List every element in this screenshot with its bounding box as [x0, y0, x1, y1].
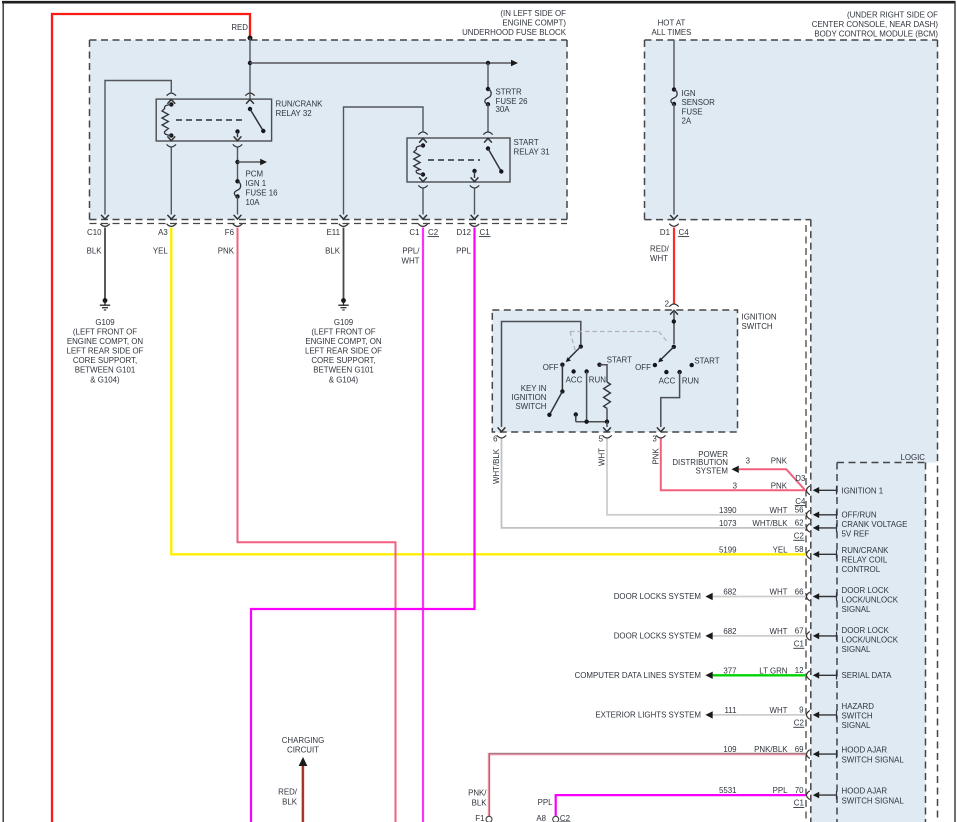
svg-text:SWITCH SIGNAL: SWITCH SIGNAL — [842, 796, 905, 805]
key-in switch arm (open) — [550, 391, 563, 414]
svg-text:PNK/BLK: PNK/BLK — [754, 745, 788, 754]
right switch RUN wire to pin 3 — [661, 372, 680, 427]
svg-text:67: 67 — [795, 627, 804, 636]
svg-text:IGNITION 1: IGNITION 1 — [842, 486, 884, 495]
svg-text:DOOR LOCK: DOOR LOCK — [842, 586, 890, 595]
connector A8/C2 terminal — [553, 816, 559, 822]
svg-text:KEY IN: KEY IN — [521, 384, 547, 393]
ignition switch exit pin 5 — [603, 427, 611, 431]
relay 31 common pin crossing — [484, 138, 492, 142]
svg-text:WHT: WHT — [402, 256, 420, 265]
svg-text:IGN 1: IGN 1 — [246, 179, 267, 188]
ground G109 symbol at x=105.0 — [103, 298, 108, 303]
svg-text:ENGINE COMPT, ON: ENGINE COMPT, ON — [67, 337, 144, 346]
svg-text:SWITCH SIGNAL: SWITCH SIGNAL — [842, 755, 905, 764]
svg-text:F6: F6 — [225, 228, 235, 237]
svg-text:SIGNAL: SIGNAL — [842, 605, 872, 614]
svg-text:PPL: PPL — [456, 247, 472, 256]
svg-text:5531: 5531 — [719, 786, 737, 795]
svg-text:CORE SUPPORT,: CORE SUPPORT, — [311, 356, 375, 365]
BCM pin 56 — [807, 510, 810, 519]
svg-text:A3: A3 — [158, 228, 168, 237]
wire RED/BLK off-page to charging circuit — [302, 766, 304, 822]
relay 32 output contact — [235, 129, 239, 133]
body control module (BCM) dashed box — [645, 40, 938, 220]
svg-text:F1: F1 — [475, 814, 484, 822]
wire hot-at-all-times into BCM — [673, 40, 675, 90]
svg-text:CONTROL: CONTROL — [842, 565, 881, 574]
resistor in ignition switch — [604, 382, 611, 408]
svg-text:2: 2 — [665, 299, 669, 308]
wire relay31 coil top to E11 drop — [344, 107, 424, 215]
right switch RUN contact — [677, 370, 681, 374]
right switch pivot — [672, 345, 676, 349]
wire relay31 output to D12 — [474, 189, 476, 215]
svg-text:70: 70 — [795, 786, 804, 795]
left switch arm (points at OFF) — [567, 347, 581, 361]
svg-text:C1: C1 — [480, 228, 490, 237]
relay 32 coil top pin crossing — [167, 100, 175, 104]
wire LT GRN 377 serial data (pin 12) — [713, 674, 807, 676]
wire YEL 5199 from A3 to BCM pin 58 — [171, 228, 806, 555]
svg-text:C4: C4 — [679, 228, 690, 237]
svg-text:9: 9 — [799, 706, 804, 715]
svg-text:ENGINE COMPT, ON: ENGINE COMPT, ON — [305, 337, 382, 346]
fuse block exit A3 — [167, 215, 175, 219]
wire WHT 682 to door locks (pin 66) — [713, 596, 807, 598]
svg-text:G109: G109 — [334, 318, 354, 327]
svg-text:CIRCUIT: CIRCUIT — [287, 746, 319, 755]
svg-text:G109: G109 — [95, 318, 115, 327]
wire WHT pin5 to BCM pin 56 — [607, 439, 806, 515]
right switch ACC contact — [664, 370, 668, 374]
svg-text:SENSOR: SENSOR — [682, 98, 716, 107]
svg-text:3: 3 — [733, 482, 738, 491]
svg-text:56: 56 — [795, 506, 804, 515]
PCM feed branch arrow — [238, 161, 261, 163]
key-in switch pivot wire — [561, 365, 563, 392]
svg-text:IGN: IGN — [682, 89, 696, 98]
relay 31 output pin crossing — [471, 177, 479, 181]
fuse block exit C10 — [101, 215, 109, 219]
svg-text:30A: 30A — [496, 105, 511, 114]
BCM exit D1/C4 crossing — [670, 215, 678, 219]
svg-text:CRANK VOLTAGE: CRANK VOLTAGE — [842, 520, 908, 529]
svg-text:BODY CONTROL MODULE (BCM): BODY CONTROL MODULE (BCM) — [814, 30, 938, 39]
ignition switch dashed box — [492, 310, 737, 432]
svg-text:10A: 10A — [246, 198, 261, 207]
svg-text:SWITCH: SWITCH — [742, 322, 773, 331]
svg-text:C2: C2 — [794, 719, 804, 728]
svg-text:3: 3 — [746, 456, 751, 465]
svg-text:CENTER CONSOLE, NEAR DASH): CENTER CONSOLE, NEAR DASH) — [812, 20, 939, 29]
wire resistor bottom — [606, 408, 608, 421]
wire PNK branch to power distribution — [739, 469, 805, 489]
svg-text:PNK: PNK — [771, 482, 788, 491]
svg-text:PPL: PPL — [773, 786, 789, 795]
wire PCM fuse to F6 — [237, 197, 239, 215]
svg-text:C1: C1 — [409, 228, 419, 237]
fuse block exit D12/C1 — [471, 215, 479, 219]
wire PPL/WHT from C1C2 off-page — [422, 228, 424, 822]
svg-text:62: 62 — [795, 519, 804, 528]
svg-text:LEFT REAR SIDE OF: LEFT REAR SIDE OF — [305, 347, 382, 356]
svg-text:PNK: PNK — [652, 448, 661, 465]
svg-text:CORE SUPPORT,: CORE SUPPORT, — [73, 356, 137, 365]
junction dot above STRTR fuse — [486, 61, 490, 65]
wire WHT 111 exterior lights (pin 9) — [713, 714, 807, 716]
svg-text:D12: D12 — [457, 228, 471, 237]
wire PNK from F6 down and off-page — [238, 228, 396, 822]
svg-text:SWITCH: SWITCH — [515, 402, 546, 411]
svg-text:RELAY 31: RELAY 31 — [514, 148, 550, 157]
svg-text:WHT: WHT — [770, 627, 788, 636]
svg-text:5: 5 — [599, 434, 604, 443]
svg-text:ACC: ACC — [659, 376, 676, 385]
connector F1 terminal — [486, 816, 492, 822]
svg-text:E11: E11 — [327, 228, 340, 237]
svg-text:OFF: OFF — [543, 363, 559, 372]
svg-text:IGNITION: IGNITION — [742, 312, 777, 321]
svg-text:12: 12 — [795, 666, 804, 675]
right switch OFF contact — [653, 363, 657, 367]
svg-text:1390: 1390 — [719, 506, 737, 515]
svg-text:5V REF: 5V REF — [842, 529, 870, 538]
svg-text:CHARGING: CHARGING — [282, 736, 325, 745]
svg-text:COMPUTER DATA LINES SYSTEM: COMPUTER DATA LINES SYSTEM — [575, 671, 701, 680]
svg-text:D1: D1 — [660, 228, 670, 237]
svg-text:D3: D3 — [795, 474, 806, 483]
svg-text:C10: C10 — [87, 228, 102, 237]
BCM pin 9 — [807, 711, 810, 720]
svg-text:PPL/: PPL/ — [402, 247, 420, 256]
svg-text:682: 682 — [723, 627, 736, 636]
left switch START wire to resistor — [600, 365, 608, 382]
ignition switch exit pin 6 — [498, 427, 506, 431]
wire pin2 into right switch — [673, 310, 675, 344]
fuse IGN SENSOR FUSE 2A — [672, 87, 676, 91]
svg-text:C2: C2 — [794, 532, 804, 541]
left switch ACC contact — [571, 369, 575, 373]
ignition switch pin 2 entry — [669, 304, 678, 307]
svg-text:WHT: WHT — [650, 254, 668, 263]
svg-text:RED/: RED/ — [278, 788, 298, 797]
svg-text:PPL: PPL — [538, 798, 554, 807]
relay 32 switch pivot and arm — [248, 107, 252, 111]
svg-text:UNDERHOOD FUSE BLOCK: UNDERHOOD FUSE BLOCK — [462, 28, 567, 37]
BCM pin 70 — [807, 791, 810, 800]
BCM pin 66 — [807, 592, 810, 601]
wire BLK to ground at x=105.0 — [104, 228, 106, 300]
svg-text:& G104): & G104) — [329, 375, 359, 384]
svg-text:YEL: YEL — [773, 545, 789, 554]
ignition switch exit pin 3 — [657, 427, 665, 431]
svg-text:RUN: RUN — [589, 376, 606, 385]
junction dot PCM feed — [235, 160, 239, 164]
wire relay31 coil bottom to C1C2 — [422, 189, 424, 215]
svg-text:5199: 5199 — [719, 545, 737, 554]
svg-text:PCM: PCM — [246, 169, 264, 178]
svg-text:RED/: RED/ — [650, 244, 670, 253]
right switch arm (points at OFF) — [660, 347, 674, 361]
left switch START contact — [597, 363, 601, 367]
relay 31 coil — [421, 143, 425, 147]
svg-text:(LEFT FRONT OF: (LEFT FRONT OF — [73, 327, 137, 336]
wire relay32 coil top to C10 drop — [105, 81, 171, 215]
left switch pivot — [579, 344, 583, 348]
svg-text:BETWEEN G101: BETWEEN G101 — [75, 366, 136, 375]
svg-text:6: 6 — [493, 434, 498, 443]
svg-text:58: 58 — [795, 545, 804, 554]
svg-text:HAZARD: HAZARD — [842, 702, 875, 711]
relay 31 output contact — [472, 169, 476, 173]
svg-text:EXTERIOR LIGHTS SYSTEM: EXTERIOR LIGHTS SYSTEM — [595, 711, 701, 720]
junction dot at fuse block entry — [248, 36, 253, 41]
svg-text:RELAY COIL: RELAY COIL — [842, 555, 888, 564]
charging circuit continuation arrow — [299, 757, 308, 766]
svg-text:LOCK/UNLOCK: LOCK/UNLOCK — [842, 596, 899, 605]
svg-text:RED: RED — [231, 23, 248, 32]
BCM pin 62 — [807, 524, 810, 533]
svg-text:111: 111 — [725, 706, 737, 715]
wire WHT 682 to door locks (pin 67) — [713, 635, 807, 637]
svg-text:C1: C1 — [794, 799, 804, 808]
relay 31 coil top pin crossing — [419, 138, 427, 142]
wire PPL 5531 to A8 connector — [556, 795, 806, 816]
wire relay32 coil bottom to A3 — [170, 148, 172, 215]
svg-text:BLK: BLK — [87, 247, 103, 256]
svg-text:HOOD AJAR: HOOD AJAR — [842, 745, 888, 754]
svg-text:START: START — [607, 356, 632, 365]
wire WHT/BLK pin6 to BCM pin 62 — [502, 439, 807, 528]
svg-text:RELAY 32: RELAY 32 — [276, 109, 312, 118]
B+ distribution wire with continuation arrow — [250, 62, 511, 64]
svg-text:YEL: YEL — [153, 247, 169, 256]
svg-text:C2: C2 — [560, 814, 570, 822]
svg-text:WHT: WHT — [770, 506, 788, 515]
svg-text:BETWEEN G101: BETWEEN G101 — [313, 366, 374, 375]
wire RED/WHT from BCM to ignition switch pin 2 — [673, 228, 675, 304]
svg-text:ALL TIMES: ALL TIMES — [652, 28, 692, 37]
svg-text:IGNITION: IGNITION — [511, 393, 546, 402]
svg-text:3: 3 — [652, 434, 657, 443]
BCM pin D3/C4 IGNITION 1 entry — [807, 486, 810, 495]
relay 31 switch pivot and arm — [486, 146, 490, 150]
svg-text:RUN/CRANK: RUN/CRANK — [842, 546, 890, 555]
svg-text:ACC: ACC — [566, 376, 583, 385]
relay box U32 — [156, 99, 271, 141]
svg-text:PNK: PNK — [771, 456, 788, 465]
svg-text:PNK: PNK — [218, 247, 235, 256]
svg-text:FUSE 16: FUSE 16 — [246, 188, 279, 197]
relay 31 coil bottom pin crossing — [419, 177, 427, 181]
svg-text:PNK/: PNK/ — [468, 789, 487, 798]
wire PPL from D12C1 down-left off-page — [251, 228, 475, 822]
wire BLK to ground at x=343.5 — [343, 228, 345, 300]
svg-text:(LEFT FRONT OF: (LEFT FRONT OF — [311, 327, 375, 336]
relay 32 mechanical link (dashed) — [176, 119, 242, 121]
svg-text:LOCK/UNLOCK: LOCK/UNLOCK — [842, 635, 899, 644]
ground G109 symbol at x=343.5 — [341, 298, 346, 303]
svg-text:LEFT REAR SIDE OF: LEFT REAR SIDE OF — [66, 347, 143, 356]
BCM pin 69 — [807, 750, 810, 759]
svg-text:SIGNAL: SIGNAL — [842, 645, 872, 654]
svg-text:2A: 2A — [682, 117, 692, 126]
left switch RUN wire down — [586, 372, 588, 422]
junction dot B+ distribution — [248, 61, 252, 65]
svg-text:SERIAL DATA: SERIAL DATA — [842, 671, 893, 680]
svg-text:69: 69 — [795, 745, 804, 754]
fuse block exit E11 — [340, 215, 348, 219]
svg-text:START: START — [514, 138, 539, 147]
svg-text:(UNDER RIGHT SIDE OF: (UNDER RIGHT SIDE OF — [847, 10, 938, 19]
svg-text:BLK: BLK — [325, 247, 341, 256]
svg-text:SWITCH: SWITCH — [842, 711, 873, 720]
svg-text:HOOD AJAR: HOOD AJAR — [842, 786, 888, 795]
svg-text:ENGINE COMPT): ENGINE COMPT) — [502, 19, 566, 28]
svg-text:OFF/RUN: OFF/RUN — [842, 511, 877, 520]
key-in switch fixed contact — [574, 412, 578, 416]
svg-text:OFF: OFF — [635, 363, 651, 372]
svg-text:WHT: WHT — [770, 588, 788, 597]
svg-text:1073: 1073 — [719, 519, 737, 528]
wire relay32 output to PCM IGN1 fuse — [237, 148, 239, 182]
svg-text:377: 377 — [723, 666, 736, 675]
svg-text:& G104): & G104) — [90, 375, 120, 384]
svg-text:C4: C4 — [795, 497, 806, 506]
left switch OFF contact — [560, 363, 564, 367]
wire RED battery feed — [52, 14, 250, 822]
fuse PCM IGN 1 FUSE 16 10A — [235, 179, 239, 183]
wire from RED entry down to run/crank relay 32 — [249, 38, 251, 99]
right switch START contact — [690, 363, 694, 367]
BCM pin 58 — [807, 550, 810, 559]
svg-text:RUN: RUN — [682, 376, 699, 385]
wire STRTR fuse to relay 31 — [487, 104, 489, 132]
wire pin6 to left switch pivot feed — [502, 322, 581, 428]
fuse block exit C1/C2 — [419, 215, 427, 219]
underhood fuse block (dashed box) — [90, 40, 568, 220]
relay box U31 — [407, 138, 510, 182]
wire PNK pin3 to BCM pin D3 — [661, 439, 805, 491]
svg-text:HOT AT: HOT AT — [658, 19, 686, 28]
svg-text:LOGIC: LOGIC — [900, 453, 925, 462]
svg-text:WHT/BLK: WHT/BLK — [752, 519, 788, 528]
svg-text:WHT: WHT — [598, 448, 607, 466]
BCM pin 12 — [807, 671, 810, 680]
right switch feed dot — [672, 319, 676, 323]
svg-text:STRTR: STRTR — [496, 88, 522, 97]
wire PNK/BLK 109 to F1 connector — [489, 754, 806, 816]
svg-text:C2: C2 — [428, 228, 438, 237]
svg-text:109: 109 — [723, 745, 737, 754]
left switch RUN contact — [584, 369, 588, 373]
relay 32 common pin crossing — [246, 100, 254, 104]
svg-text:682: 682 — [723, 588, 736, 597]
fuse block exit F6 — [234, 215, 242, 219]
svg-text:SYSTEM: SYSTEM — [696, 467, 728, 476]
svg-text:(IN LEFT SIDE OF: (IN LEFT SIDE OF — [500, 9, 566, 18]
svg-text:WHT/BLK: WHT/BLK — [492, 448, 501, 484]
junction bus to pin 5 — [576, 421, 607, 423]
svg-text:BLK: BLK — [282, 797, 298, 806]
svg-text:DOOR LOCKS SYSTEM: DOOR LOCKS SYSTEM — [614, 592, 701, 601]
key-in switch pivot dot — [560, 389, 564, 393]
svg-text:66: 66 — [795, 587, 804, 596]
svg-text:RUN/CRANK: RUN/CRANK — [276, 99, 324, 108]
svg-text:C1: C1 — [794, 640, 804, 649]
svg-text:WHT: WHT — [770, 706, 788, 715]
svg-text:FUSE: FUSE — [682, 107, 703, 116]
relay 32 coil — [169, 102, 173, 106]
BCM pin 67 — [807, 632, 810, 641]
svg-text:DOOR LOCK: DOOR LOCK — [842, 626, 890, 635]
relay 32 output pin crossing — [234, 136, 242, 140]
fuse STRTR FUSE 26 30A — [486, 87, 490, 91]
svg-text:A8: A8 — [536, 814, 546, 822]
mechanical link dashed line between switches — [570, 331, 659, 333]
svg-text:START: START — [694, 357, 719, 366]
svg-text:LT GRN: LT GRN — [759, 666, 788, 675]
relay 32 coil bottom pin crossing — [167, 136, 175, 140]
wire distribution to STRTR fuse — [487, 63, 489, 89]
svg-text:SIGNAL: SIGNAL — [842, 721, 872, 730]
BCM LOGIC dashed box — [837, 462, 926, 464]
relay 31 mechanical link (dashed) — [428, 159, 480, 161]
svg-text:DOOR LOCKS SYSTEM: DOOR LOCKS SYSTEM — [614, 632, 701, 641]
svg-text:BLK: BLK — [472, 798, 488, 807]
wire IGN sensor fuse to BCM exit D1 — [673, 104, 675, 215]
